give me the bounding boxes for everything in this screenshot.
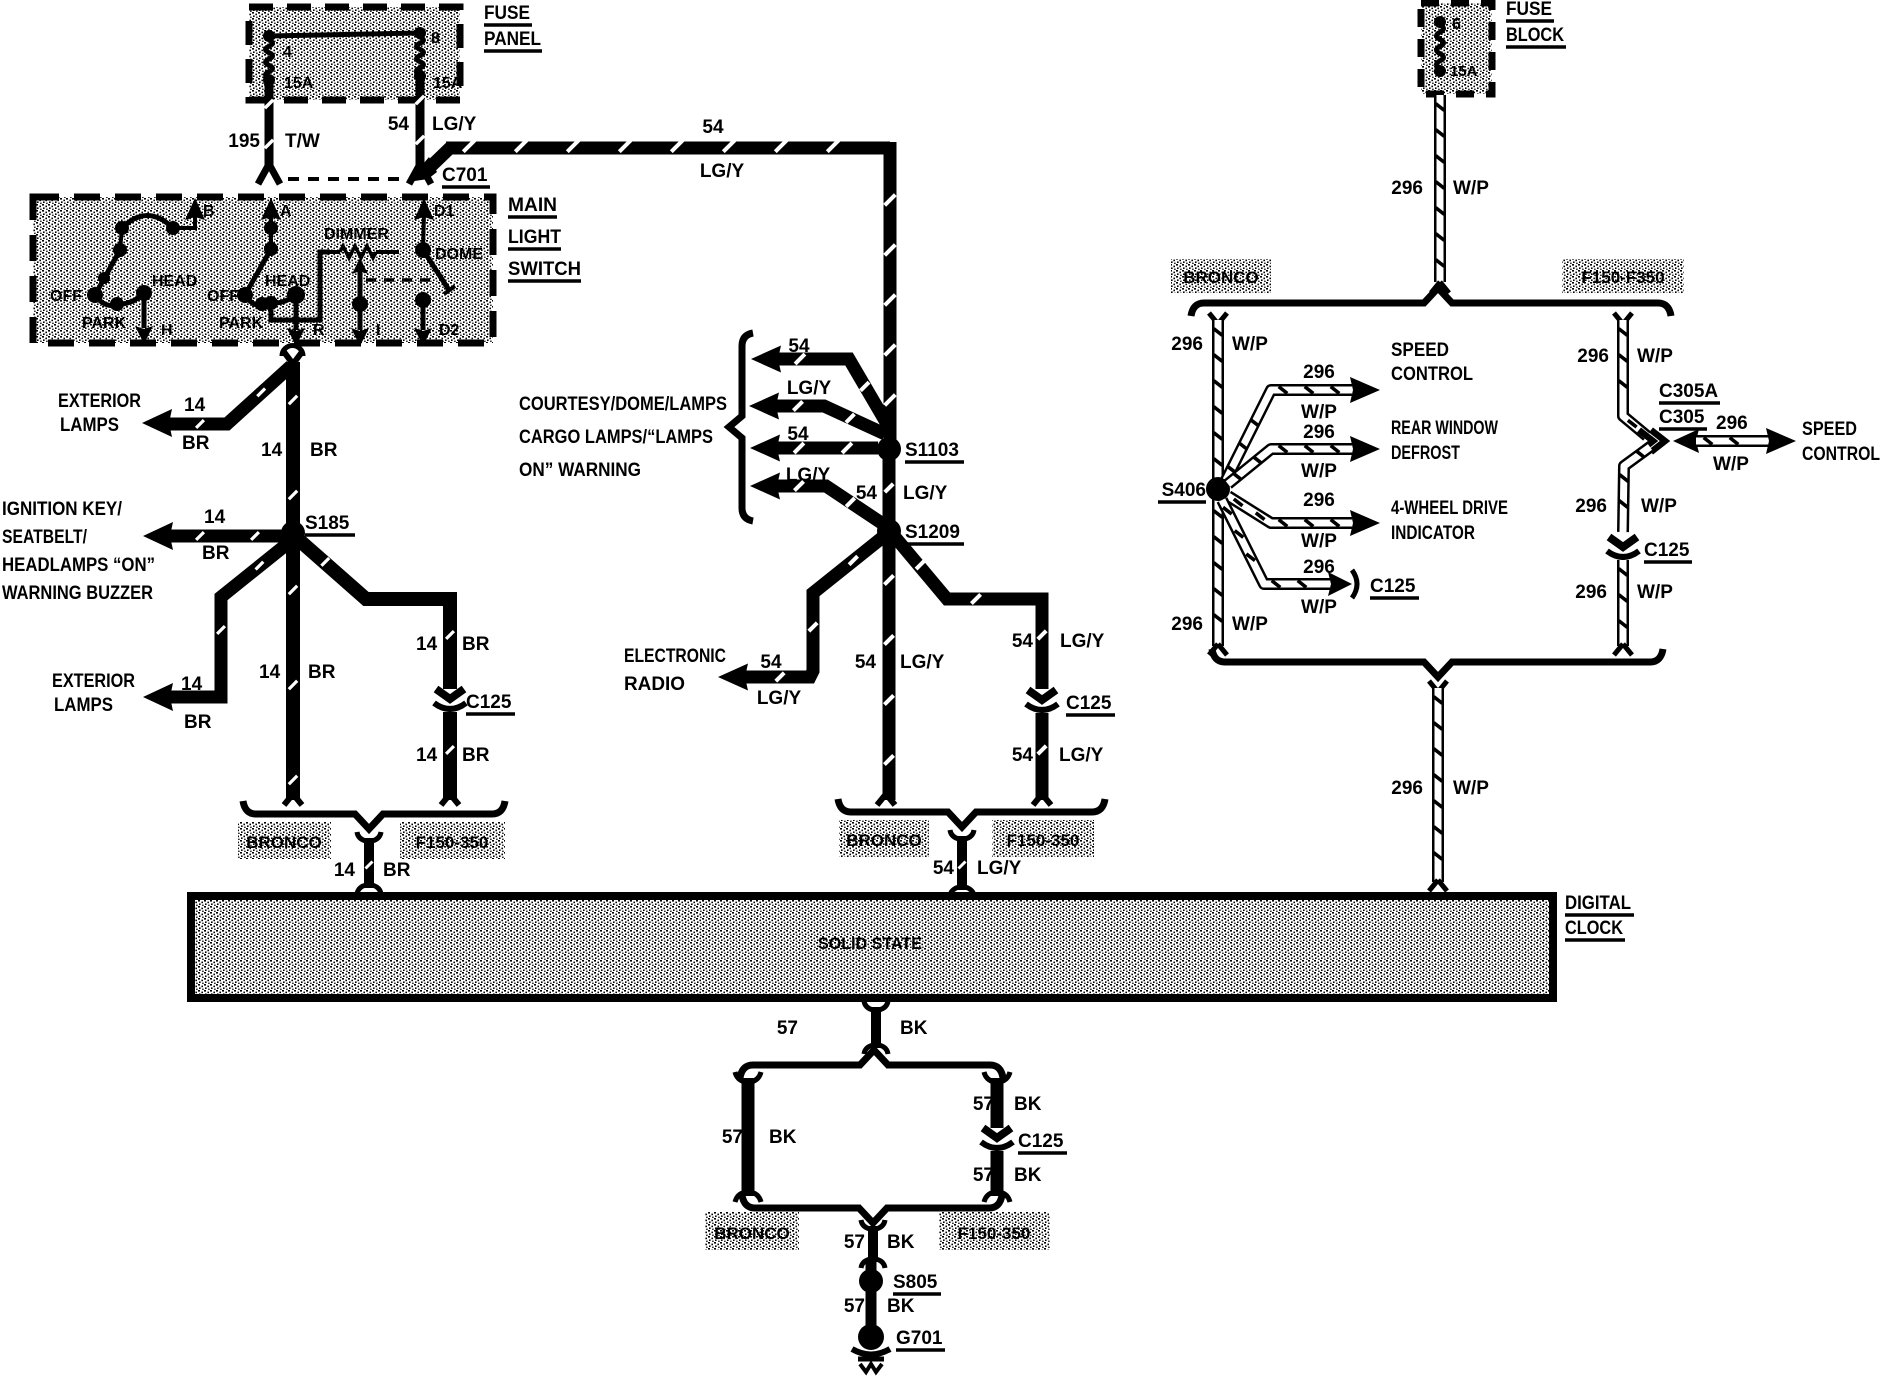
wire 296 C125 branch (1222, 500, 1357, 598)
svg-text:REAR WINDOW: REAR WINDOW (1391, 418, 1498, 439)
svg-text:54: 54 (787, 424, 809, 445)
svg-text:W/P: W/P (1232, 334, 1268, 355)
label 296 W/P bronco bottom (1171, 614, 1268, 635)
wire S1209 branch right to C125 (895, 537, 1046, 689)
svg-text:296: 296 (1575, 496, 1607, 517)
svg-text:OFF: OFF (207, 288, 239, 305)
terminal H (135, 293, 173, 344)
wire 296 speed control branch (1226, 377, 1380, 480)
svg-text:W/P: W/P (1232, 614, 1268, 635)
svg-text:4-WHEEL DRIVE: 4-WHEEL DRIVE (1391, 498, 1508, 519)
wire S1103 to S1209 (885, 449, 893, 529)
wire courtesy arrow 1 (751, 346, 887, 425)
label C125 center (1066, 693, 1115, 715)
wire feet left chain (284, 794, 459, 805)
svg-text:LG/Y: LG/Y (977, 858, 1022, 879)
connector C125 left (434, 689, 466, 709)
wire 54 LG/Y main feed (408, 140, 895, 445)
fuse F6 15A (1434, 16, 1478, 80)
svg-text:DOME: DOME (435, 246, 483, 263)
wire courtesy arrow 4 (750, 473, 883, 525)
brace bottom upper (740, 1050, 1003, 1078)
label box BRONCO left (238, 822, 331, 859)
node S406 (1206, 477, 1230, 501)
svg-text:BR: BR (308, 662, 336, 683)
wire 296 W/P fuse block drop (1431, 95, 1449, 293)
svg-text:14: 14 (261, 440, 283, 461)
svg-text:DIMMER: DIMMER (324, 226, 389, 243)
wire 296 W/P f150 vertical upper (1614, 313, 1647, 436)
label 54 LG/Y (388, 114, 477, 135)
label 54 LG/Y below C125 center (1012, 745, 1104, 766)
svg-text:57: 57 (722, 1127, 743, 1148)
svg-text:LAMPS: LAMPS (60, 415, 119, 436)
svg-text:W/P: W/P (1301, 461, 1337, 482)
svg-text:57: 57 (973, 1094, 994, 1115)
label box F150-350 left (400, 822, 505, 859)
brace bottom lower (742, 1195, 1002, 1223)
svg-text:COURTESY/DOME/LAMPS: COURTESY/DOME/LAMPS (519, 394, 727, 415)
svg-text:A: A (280, 203, 292, 220)
fuse F8 15A (414, 30, 463, 92)
main light switch box (33, 197, 493, 343)
svg-text:296: 296 (1577, 346, 1609, 367)
svg-text:F150-350: F150-350 (1007, 831, 1080, 850)
arrow exterior lamps 2 (143, 683, 173, 711)
label 296 W/P f150 top (1577, 346, 1673, 367)
svg-text:LG/Y: LG/Y (700, 161, 745, 182)
svg-text:W/P: W/P (1637, 346, 1673, 367)
wire head to dimmer (271, 252, 330, 320)
svg-text:LIGHT: LIGHT (508, 227, 561, 248)
label 54 LG/Y top run (700, 117, 745, 182)
label PARK 2 (219, 315, 264, 332)
svg-text:HEAD: HEAD (265, 273, 310, 290)
svg-text:LAMPS: LAMPS (54, 695, 113, 716)
connector 14 BR to clock (357, 832, 381, 894)
wire 57 BK loop left (735, 1072, 761, 1202)
label 57 BK loop left (722, 1127, 797, 1148)
wire fuse panel bus (263, 27, 426, 42)
label 296 W/P to clock (1391, 778, 1489, 799)
label S406 (1158, 480, 1206, 502)
node S185 (281, 521, 305, 545)
svg-text:54: 54 (933, 858, 955, 879)
wire 296 4wd indicator branch (1228, 496, 1380, 536)
svg-text:FUSE: FUSE (484, 3, 530, 24)
svg-text:BK: BK (887, 1296, 915, 1317)
svg-text:ELECTRONIC: ELECTRONIC (624, 646, 726, 667)
svg-text:SOLID STATE: SOLID STATE (818, 934, 922, 953)
label PARK 1 (82, 315, 127, 332)
svg-text:B: B (203, 203, 215, 220)
fuse block box (1421, 3, 1492, 94)
brace courtesy lamps (729, 333, 753, 521)
svg-text:INDICATOR: INDICATOR (1391, 523, 1475, 544)
label 14 BR above C125 (416, 634, 490, 655)
label 54 LG/Y above C125 center (1012, 631, 1105, 652)
dimmer wiper terminal I (351, 258, 380, 346)
fuse F4 15A (263, 40, 314, 92)
svg-text:BR: BR (182, 433, 210, 454)
connector C125 center (1026, 690, 1058, 710)
svg-text:IGNITION KEY/: IGNITION KEY/ (2, 499, 123, 520)
svg-text:D1: D1 (434, 203, 455, 220)
svg-text:OFF: OFF (50, 288, 82, 305)
svg-text:ON” WARNING: ON” WARNING (519, 460, 641, 481)
label FUSE BLOCK (1506, 0, 1566, 47)
label SPEED CONTROL branch1 (1391, 340, 1473, 385)
label REAR WINDOW DEFROST (1391, 418, 1498, 464)
svg-text:H: H (161, 322, 173, 339)
svg-text:296: 296 (1716, 413, 1748, 434)
svg-text:C125: C125 (1066, 693, 1112, 714)
svg-text:F150-350: F150-350 (416, 833, 489, 852)
svg-text:W/P: W/P (1301, 402, 1337, 423)
label 57 BK mid (844, 1232, 915, 1253)
label 14 BR buzzer (202, 507, 230, 564)
label 57 BK top (777, 1018, 928, 1039)
label 296 W/P branch3 (1301, 490, 1337, 552)
connector C305A C305 (1639, 430, 1665, 452)
svg-text:C125: C125 (1370, 576, 1416, 597)
svg-text:W/P: W/P (1301, 531, 1337, 552)
connector 57 BK below clock (864, 1001, 888, 1054)
label C125 bottom (1018, 1131, 1067, 1153)
wire 54 LG/Y fuse drop (416, 80, 424, 165)
label S185 (305, 513, 355, 535)
label 14 BR exterior 1 (182, 395, 210, 454)
brace center chain (838, 799, 1105, 827)
svg-text:FUSE: FUSE (1506, 0, 1552, 20)
label G701 (896, 1328, 945, 1350)
terminal R (287, 295, 325, 346)
svg-text:W/P: W/P (1641, 496, 1677, 517)
label 4-WHEEL DRIVE INDICATOR (1391, 498, 1508, 544)
svg-text:PANEL: PANEL (484, 29, 541, 50)
label 14 BR exterior 2 (181, 674, 212, 733)
label DIGITAL CLOCK (1565, 893, 1634, 940)
label 296 W/P f150 low (1575, 582, 1673, 603)
svg-text:BR: BR (202, 543, 230, 564)
svg-text:BR: BR (184, 712, 212, 733)
svg-text:C125: C125 (1018, 1131, 1064, 1152)
svg-text:54: 54 (760, 652, 782, 673)
label 14 BR below C125 (416, 745, 490, 766)
connector C701 left fork (258, 164, 280, 184)
svg-text:57: 57 (844, 1232, 865, 1253)
svg-text:F150-F350: F150-F350 (1581, 268, 1664, 287)
svg-text:HEAD: HEAD (152, 273, 197, 290)
wire 296 W/P bronco vertical (1209, 313, 1227, 655)
switch blade A contacts (237, 249, 305, 318)
label HEAD 1 (152, 273, 197, 290)
label LG/Y arrow 1 (787, 378, 832, 399)
svg-text:296: 296 (1575, 582, 1607, 603)
svg-text:296: 296 (1391, 778, 1423, 799)
svg-text:296: 296 (1171, 614, 1203, 635)
label box F150-350 center (992, 820, 1094, 857)
svg-text:57: 57 (844, 1296, 865, 1317)
svg-text:PARK: PARK (82, 315, 127, 332)
svg-text:54: 54 (702, 117, 724, 138)
svg-text:15A: 15A (433, 75, 463, 92)
connector C125 right (1607, 537, 1639, 557)
label box F150-F350 right (1562, 259, 1684, 293)
svg-text:57: 57 (777, 1018, 798, 1039)
label 54 LG/Y connector (933, 858, 1022, 879)
fuse panel box (249, 7, 460, 100)
label EXTERIOR LAMPS 1 (58, 391, 141, 436)
wire 14 BR to exterior lamps 2 (168, 544, 287, 697)
svg-text:54: 54 (788, 336, 810, 357)
svg-text:S1103: S1103 (905, 440, 959, 461)
switch blade B contacts (87, 216, 173, 312)
dome switch blade (423, 250, 455, 294)
wire 296 W/P f150 vertical lower (1614, 560, 1632, 655)
svg-text:W/P: W/P (1637, 582, 1673, 603)
label 54 LG/Y between (856, 483, 948, 504)
label 296 W/P bronco top (1171, 334, 1268, 355)
ground G701 (852, 1324, 890, 1372)
node S805 (859, 1262, 883, 1293)
label C125 branch (1370, 576, 1419, 598)
label COURTESY DOME LAMPS (519, 394, 727, 481)
connector below switch R (282, 346, 303, 357)
svg-text:RADIO: RADIO (624, 674, 685, 695)
terminal D2 (414, 292, 460, 346)
svg-text:BK: BK (887, 1232, 915, 1253)
connector C701 dashed line (288, 177, 402, 181)
svg-text:SPEED: SPEED (1802, 419, 1857, 440)
svg-text:14: 14 (204, 507, 226, 528)
svg-text:BLOCK: BLOCK (1506, 25, 1564, 46)
svg-text:54: 54 (1012, 631, 1034, 652)
wire 57 BK loop right upper (984, 1072, 1010, 1128)
svg-text:BK: BK (769, 1127, 797, 1148)
label DIMMER (324, 226, 389, 243)
svg-text:C305: C305 (1659, 407, 1705, 428)
svg-text:BRONCO: BRONCO (1183, 268, 1259, 287)
svg-text:SEATBELT/: SEATBELT/ (2, 527, 88, 548)
svg-text:LG/Y: LG/Y (757, 688, 802, 709)
wire 296 W/P f150 vertical mid (1619, 447, 1650, 532)
svg-text:BR: BR (462, 745, 490, 766)
svg-text:S805: S805 (893, 1272, 938, 1293)
svg-text:BK: BK (900, 1018, 928, 1039)
svg-text:CONTROL: CONTROL (1802, 444, 1880, 465)
brace right top (1191, 288, 1671, 316)
label 296 W/P f150 mid (1575, 496, 1677, 517)
label C125 left (466, 692, 515, 714)
label 54 LG/Y radio (757, 652, 802, 709)
svg-text:C125: C125 (466, 692, 512, 713)
svg-text:DEFROST: DEFROST (1391, 443, 1460, 464)
svg-text:LG/Y: LG/Y (432, 114, 477, 135)
svg-text:SWITCH: SWITCH (508, 259, 581, 280)
wire 14 BR main vertical (284, 352, 302, 800)
label 54 LG/Y main vertical (855, 652, 945, 673)
svg-text:14: 14 (181, 674, 203, 695)
wire 57 BK to ground (866, 1292, 877, 1326)
svg-text:DIGITAL: DIGITAL (1565, 893, 1631, 914)
svg-text:I: I (376, 322, 380, 339)
svg-text:14: 14 (334, 860, 356, 881)
svg-text:296: 296 (1303, 490, 1335, 511)
label 54 arrow 1 (788, 336, 810, 357)
label W/P speed right (1713, 454, 1749, 475)
svg-text:G701: G701 (896, 1328, 943, 1349)
svg-text:195: 195 (228, 131, 260, 152)
svg-text:CARGO LAMPS/“LAMPS: CARGO LAMPS/“LAMPS (519, 427, 713, 448)
label 296 W/P drop (1391, 178, 1489, 199)
svg-text:LG/Y: LG/Y (787, 378, 832, 399)
svg-text:54: 54 (1012, 745, 1034, 766)
label EXTERIOR LAMPS 2 (52, 671, 135, 716)
terminal B (166, 198, 215, 235)
brace left chain (243, 801, 505, 829)
svg-text:C701: C701 (442, 165, 488, 186)
svg-text:14: 14 (416, 745, 438, 766)
label C305A C305 (1659, 381, 1720, 429)
label ELECTRONIC RADIO (624, 646, 726, 695)
dimmer linkage dashed (366, 278, 436, 282)
label 14 BR connector (334, 860, 411, 881)
label C701 (442, 165, 490, 187)
terminal D1 (414, 198, 455, 258)
label OFF 1 (50, 288, 82, 305)
label 296 W/P branch4 (1301, 557, 1337, 618)
svg-text:57: 57 (973, 1165, 994, 1186)
digital clock module box SOLID STATE (191, 896, 1553, 998)
svg-text:296: 296 (1171, 334, 1203, 355)
label 195 T/W (228, 131, 320, 152)
svg-text:R: R (313, 322, 325, 339)
svg-text:D2: D2 (439, 322, 460, 339)
connector C701 right fork (409, 164, 431, 184)
label FUSE PANEL (484, 3, 542, 51)
arrow electronic radio (718, 664, 748, 691)
wire 296 W/P speed control right (1673, 428, 1796, 454)
svg-text:14: 14 (259, 662, 281, 683)
svg-text:EXTERIOR: EXTERIOR (52, 671, 135, 692)
svg-text:14: 14 (416, 634, 438, 655)
svg-text:4: 4 (283, 44, 292, 61)
label OFF 2 (207, 288, 239, 305)
svg-text:SPEED: SPEED (1391, 340, 1449, 361)
label box F150-350 bottom (939, 1212, 1050, 1250)
svg-text:W/P: W/P (1713, 454, 1749, 475)
label S1209 (905, 522, 964, 544)
svg-text:BR: BR (383, 860, 411, 881)
svg-text:296: 296 (1303, 362, 1335, 383)
label box BRONCO right (1171, 259, 1271, 293)
svg-text:HEADLAMPS “ON”: HEADLAMPS “ON” (2, 555, 155, 576)
svg-text:BR: BR (462, 634, 490, 655)
label LG/Y arrow 3 (786, 465, 831, 486)
label 57 BK loop right upper (973, 1094, 1042, 1115)
wire 14 BR to exterior lamps 1 (168, 366, 291, 428)
wire S1209 to electronic radio (744, 537, 883, 681)
wire below C125 center (1033, 713, 1051, 805)
label C125 right (1644, 540, 1692, 562)
svg-text:15A: 15A (284, 75, 314, 92)
svg-text:BRONCO: BRONCO (246, 833, 322, 852)
svg-text:296: 296 (1391, 178, 1423, 199)
svg-text:C125: C125 (1644, 540, 1690, 561)
wire 296 W/P to clock (1429, 681, 1447, 891)
svg-text:W/P: W/P (1301, 597, 1337, 618)
wire courtesy arrow 3 (750, 435, 878, 462)
svg-text:W/P: W/P (1453, 778, 1489, 799)
label SOLID STATE (818, 934, 922, 953)
label 296 W/P branch1 (1301, 362, 1337, 423)
label DOME (435, 246, 483, 263)
terminal A (261, 198, 292, 256)
label box BRONCO bottom (705, 1212, 799, 1250)
svg-text:MAIN: MAIN (508, 195, 557, 216)
label 57 BK ground (844, 1296, 915, 1317)
label IGNITION KEY SEATBELT (2, 499, 155, 604)
wire 296 rear defrost branch (1228, 436, 1380, 484)
svg-text:54: 54 (855, 652, 877, 673)
label box BRONCO center (839, 820, 929, 857)
label HEAD 2 (265, 273, 310, 290)
svg-text:W/P: W/P (1453, 178, 1489, 199)
svg-text:8: 8 (431, 30, 440, 47)
wire courtesy arrow 2 (749, 393, 885, 435)
svg-text:BRONCO: BRONCO (714, 1224, 790, 1243)
svg-text:BR: BR (310, 440, 338, 461)
svg-text:S1209: S1209 (905, 522, 960, 543)
label S805 (893, 1272, 941, 1294)
arrow exterior lamps 1 (142, 409, 172, 437)
wire S1209 down (877, 531, 895, 805)
svg-text:BRONCO: BRONCO (846, 831, 922, 850)
wire 57 BK loop right lower (984, 1151, 1010, 1202)
svg-text:T/W: T/W (285, 131, 320, 152)
svg-text:296: 296 (1303, 557, 1335, 578)
dimmer resistor (318, 246, 399, 258)
brace right bottom (1212, 649, 1663, 677)
connector 54 LG/Y to clock (950, 830, 974, 896)
svg-text:15A: 15A (1450, 63, 1478, 80)
wire 14 BR below C125 (446, 712, 454, 800)
svg-text:S406: S406 (1162, 480, 1206, 501)
svg-text:14: 14 (184, 395, 206, 416)
svg-text:PARK: PARK (219, 315, 264, 332)
svg-text:BK: BK (1014, 1094, 1042, 1115)
svg-text:LG/Y: LG/Y (1059, 745, 1104, 766)
svg-text:CLOCK: CLOCK (1565, 918, 1623, 939)
label SPEED CONTROL right (1802, 419, 1880, 465)
wire 195 T/W (265, 84, 273, 166)
arrow ignition buzzer (143, 522, 173, 550)
label MAIN LIGHT SWITCH (508, 195, 581, 281)
svg-text:LG/Y: LG/Y (1060, 631, 1105, 652)
label 296 speed right (1716, 413, 1748, 434)
label 14 BR main bottom (259, 662, 336, 683)
label 57 BK loop right lower (973, 1165, 1042, 1186)
svg-text:EXTERIOR: EXTERIOR (58, 391, 141, 412)
svg-text:S185: S185 (305, 513, 350, 534)
svg-text:CONTROL: CONTROL (1391, 364, 1473, 385)
svg-text:LG/Y: LG/Y (903, 483, 948, 504)
svg-text:C305A: C305A (1659, 381, 1718, 402)
node S1209 (877, 519, 901, 543)
svg-text:F150-350: F150-350 (958, 1224, 1031, 1243)
connector C125 bottom (981, 1128, 1013, 1148)
